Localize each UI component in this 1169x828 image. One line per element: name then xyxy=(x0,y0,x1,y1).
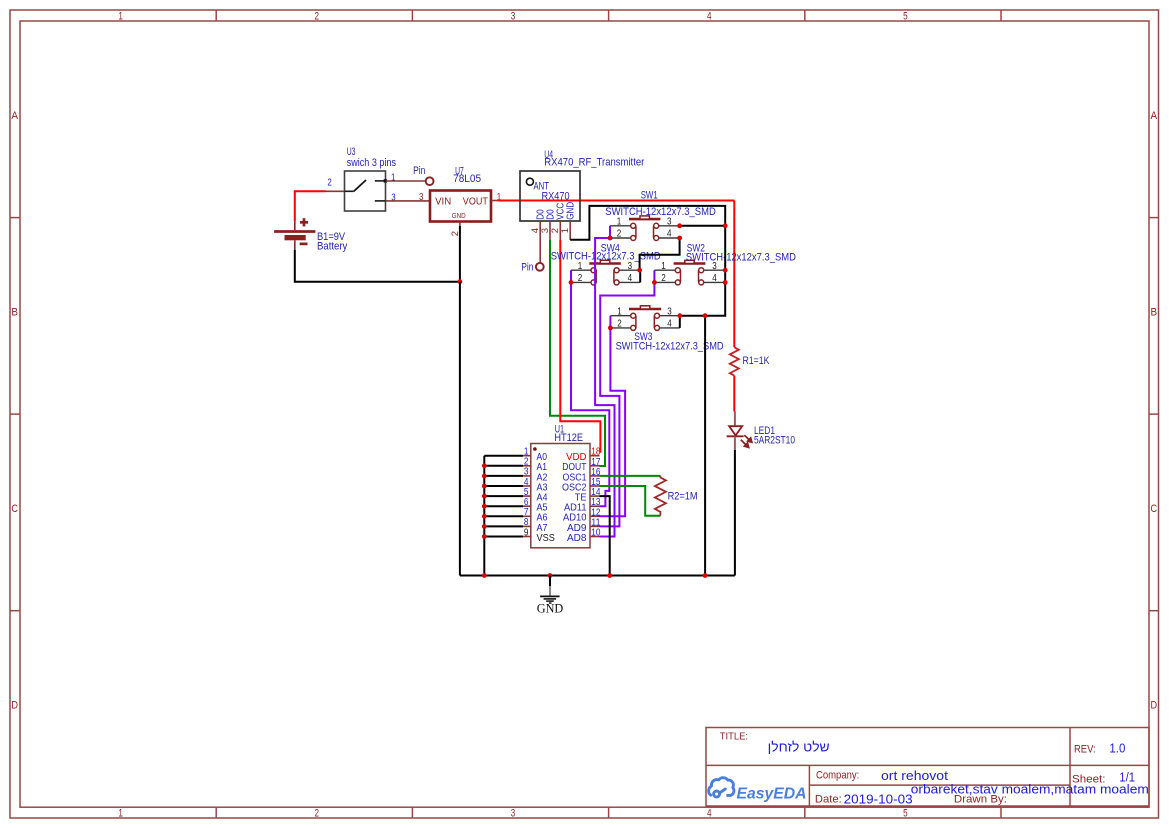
svg-text:2: 2 xyxy=(578,273,583,284)
wire U4 VCC to U1 VDD (red) xyxy=(560,240,600,453)
svg-text:5AR2ST10: 5AR2ST10 xyxy=(754,435,795,447)
svg-text:4: 4 xyxy=(667,229,672,240)
wire U1 TE to ground rail xyxy=(600,496,610,575)
svg-text:EasyEDA: EasyEDA xyxy=(737,785,807,802)
svg-text:Battery: Battery xyxy=(317,240,348,252)
svg-text:ort rehovot: ort rehovot xyxy=(881,769,949,783)
svg-text:2: 2 xyxy=(617,318,622,329)
svg-text:10: 10 xyxy=(591,528,601,539)
junction dots ground rail xyxy=(482,573,487,578)
svg-text:1: 1 xyxy=(560,228,571,233)
wire SW1.2 to U1 AD8 (purple) xyxy=(595,238,614,537)
svg-text:RX470: RX470 xyxy=(542,190,570,202)
pushbutton SW1 xyxy=(605,190,716,241)
svg-text:C: C xyxy=(11,503,18,515)
svg-text:R1=1K: R1=1K xyxy=(743,355,770,367)
svg-text:C: C xyxy=(1151,503,1158,515)
switch U3 (swich 3 pins) xyxy=(327,146,396,211)
Pin terminal P1 xyxy=(426,177,434,185)
wire address bus A0-A7/VSS to ground xyxy=(484,456,523,576)
svg-text:5: 5 xyxy=(903,808,908,820)
svg-text:Date:: Date: xyxy=(815,793,842,805)
wire battery+ to U3 pin2 (red) xyxy=(295,191,326,221)
svg-text:1: 1 xyxy=(661,261,666,272)
wire LED1 cathode to ground rail xyxy=(734,450,736,576)
wire SW2.2 to U1 AD9 (purple) xyxy=(600,282,655,526)
pushbutton SW4 xyxy=(551,242,661,285)
wire U1 OSC1 to R2 (green) xyxy=(600,475,661,477)
wire U4 D0(3) to U1 DOUT (green) xyxy=(550,240,605,466)
svg-text:4: 4 xyxy=(628,273,633,284)
svg-text:RX470_RF_Transmitter: RX470_RF_Transmitter xyxy=(544,156,644,168)
wire battery- to junction xyxy=(295,250,460,282)
wire right bus down to SW3 xyxy=(705,226,725,316)
wire SW1.3 to right bus xyxy=(680,225,726,227)
battery B1 xyxy=(274,218,347,252)
Pin terminal P2 xyxy=(536,263,544,271)
svg-text:SWITCH-12x12x7.3_SMD: SWITCH-12x12x7.3_SMD xyxy=(616,340,724,352)
wire SW4 pins3-4 bridge xyxy=(639,270,641,282)
wire SW1.4 to SW4.3 xyxy=(640,238,680,270)
wire SW1 pins1-2 bridge (purple) xyxy=(609,226,611,238)
LED LED1 5AR2ST10 xyxy=(727,412,795,450)
svg-text:Company:: Company: xyxy=(816,770,859,782)
wire SW3.2 to U1 AD10 (purple) xyxy=(600,328,626,516)
svg-text:SWITCH-12x12x7.3_SMD: SWITCH-12x12x7.3_SMD xyxy=(551,250,661,262)
junction dots xyxy=(608,236,613,241)
svg-text:SWITCH-12x12x7.3_SMD: SWITCH-12x12x7.3_SMD xyxy=(605,206,716,218)
svg-text:VIN: VIN xyxy=(435,196,451,207)
wire SW2 pins1-2 bridge (purple) xyxy=(653,270,655,282)
wire SW3 pins1-2 bridge (purple) xyxy=(609,316,611,328)
svg-text:B: B xyxy=(1151,306,1158,318)
svg-text:4: 4 xyxy=(707,808,712,820)
svg-text:3: 3 xyxy=(628,261,633,272)
svg-text:4: 4 xyxy=(707,11,712,23)
pushbutton SW3 xyxy=(610,306,723,353)
junction dots address bus xyxy=(482,463,487,468)
pushbutton SW2 xyxy=(654,242,796,285)
svg-text:78L05: 78L05 xyxy=(453,173,481,185)
svg-text:VSS: VSS xyxy=(537,533,555,544)
svg-text:שלט לזחלן: שלט לזחלן xyxy=(768,739,830,754)
svg-text:SW1: SW1 xyxy=(641,190,658,202)
svg-text:2: 2 xyxy=(661,273,666,284)
wire R1 to LED1 (red) xyxy=(733,376,735,412)
wire left ground bus xyxy=(459,282,461,576)
svg-text:GND: GND xyxy=(452,213,466,220)
RF module U4 RX470 xyxy=(520,149,644,240)
ground GND xyxy=(537,576,564,616)
svg-text:5: 5 xyxy=(903,11,908,23)
wire SW3 pins3-4 bridge xyxy=(679,316,681,328)
U3 pin2 stub xyxy=(326,190,345,192)
junction at U7 gnd xyxy=(458,279,463,284)
wire SW3 bus down to ground rail xyxy=(704,316,706,576)
svg-text:1.0: 1.0 xyxy=(1109,741,1125,755)
wire U3 pin3 to U7 VIN xyxy=(386,200,431,202)
EasyEDA logo xyxy=(709,778,734,797)
svg-text:2: 2 xyxy=(315,808,320,820)
svg-text:REV:: REV: xyxy=(1074,743,1096,755)
title block xyxy=(706,728,1149,807)
svg-text:3: 3 xyxy=(419,191,424,203)
svg-text:D: D xyxy=(11,700,18,712)
svg-text:orbareket,stav moalem,matam mo: orbareket,stav moalem,matam moalem xyxy=(911,783,1149,797)
wire VCC rail (red) xyxy=(498,200,735,202)
svg-text:1: 1 xyxy=(578,261,583,272)
svg-text:4: 4 xyxy=(712,273,717,284)
svg-text:SWITCH-12x12x7.3_SMD: SWITCH-12x12x7.3_SMD xyxy=(686,251,796,263)
svg-text:GND: GND xyxy=(537,601,564,615)
svg-text:2: 2 xyxy=(327,177,332,189)
svg-text:1: 1 xyxy=(118,808,123,820)
svg-text:1: 1 xyxy=(617,306,622,317)
resistor R2=1M xyxy=(655,476,698,516)
svg-text:A: A xyxy=(1151,110,1158,122)
svg-text:VOUT: VOUT xyxy=(463,196,489,207)
wire VCC rail down to R1 xyxy=(733,201,735,348)
svg-text:TITLE:: TITLE: xyxy=(720,731,748,743)
svg-text:B: B xyxy=(11,306,18,318)
svg-text:2: 2 xyxy=(315,11,320,23)
wire SW4 pins1-2 bridge (purple) xyxy=(570,270,572,282)
wire SW3.3 to bus xyxy=(680,315,705,317)
wire U3 pin1 to Pin terminal xyxy=(386,180,426,182)
svg-text:1: 1 xyxy=(118,11,123,23)
svg-text:9: 9 xyxy=(524,527,529,538)
svg-text:4: 4 xyxy=(667,318,672,329)
svg-text:3: 3 xyxy=(511,808,516,820)
wire U4 GND to SW1 pin3 (black) xyxy=(570,206,725,240)
svg-text:Pin: Pin xyxy=(521,262,533,274)
svg-text:2019-10-03: 2019-10-03 xyxy=(844,792,913,806)
regulator U7 78L05 xyxy=(430,166,501,237)
svg-text:A: A xyxy=(11,110,18,122)
svg-text:2: 2 xyxy=(617,229,622,240)
wire U7 GND to ground bus xyxy=(459,226,461,282)
svg-text:3: 3 xyxy=(511,11,516,23)
svg-text:D: D xyxy=(1151,700,1158,712)
resistor R1=1K xyxy=(730,347,770,375)
encoder U1 HT12E xyxy=(523,423,601,547)
svg-text:Pin: Pin xyxy=(413,165,425,177)
wire U4 pin4 to Pin terminal xyxy=(539,240,541,263)
svg-text:swich 3 pins: swich 3 pins xyxy=(347,157,397,169)
svg-text:HT12E: HT12E xyxy=(554,432,583,444)
svg-text:AD8: AD8 xyxy=(567,533,587,544)
svg-text:GND: GND xyxy=(566,202,577,220)
svg-text:R2=1M: R2=1M xyxy=(668,490,698,502)
wire U1 OSC2 to R2 (green) xyxy=(600,486,661,516)
wire SW4.2 to U1 AD11 (purple) xyxy=(571,282,609,506)
svg-text:3: 3 xyxy=(667,306,672,317)
wire bottom ground rail xyxy=(460,575,735,577)
